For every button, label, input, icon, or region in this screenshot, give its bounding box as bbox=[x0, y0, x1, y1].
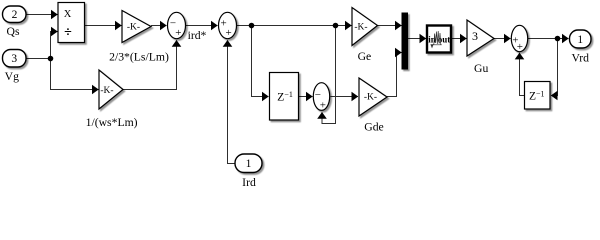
svg-text:2: 2 bbox=[12, 9, 18, 21]
svg-text:1: 1 bbox=[246, 158, 252, 170]
svg-text:Ge: Ge bbox=[358, 50, 372, 63]
svg-text:+: + bbox=[517, 41, 523, 53]
svg-text:Ird: Ird bbox=[242, 176, 256, 189]
svg-text:Gde: Gde bbox=[364, 121, 383, 134]
svg-text:-K-: -K- bbox=[354, 23, 367, 33]
svg-text:-K-: -K- bbox=[127, 23, 140, 33]
svg-text:Gu: Gu bbox=[474, 62, 488, 75]
svg-text:1: 1 bbox=[577, 34, 583, 46]
svg-text:-K-: -K- bbox=[100, 86, 113, 96]
svg-text:+: + bbox=[320, 100, 326, 112]
svg-text:-K-: -K- bbox=[364, 93, 377, 103]
svg-text:Qs: Qs bbox=[7, 25, 20, 38]
svg-text:+: + bbox=[175, 27, 181, 39]
svg-text:ird*: ird* bbox=[188, 29, 207, 42]
svg-text:2/3*(Ls/Lm): 2/3*(Ls/Lm) bbox=[109, 51, 169, 64]
svg-text:Vrd: Vrd bbox=[572, 52, 590, 65]
svg-text:+: + bbox=[225, 27, 231, 39]
svg-text:Vg: Vg bbox=[5, 70, 19, 83]
svg-text:X: X bbox=[64, 9, 72, 20]
svg-text:1/(ws*Lm): 1/(ws*Lm) bbox=[86, 116, 138, 129]
svg-text:÷: ÷ bbox=[64, 25, 72, 40]
svg-text:3: 3 bbox=[11, 53, 17, 65]
svg-text:3: 3 bbox=[472, 29, 478, 43]
